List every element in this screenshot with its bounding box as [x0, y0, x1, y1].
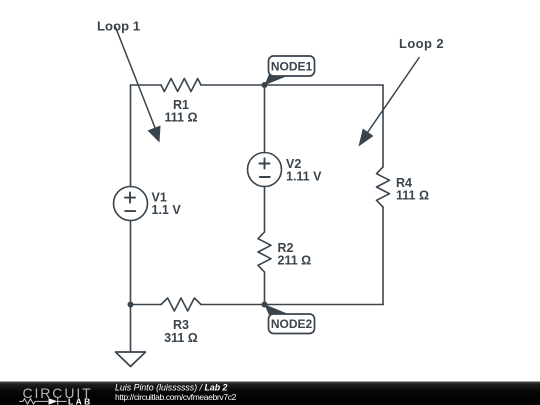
wire: left rail lower segment — [130, 221, 132, 305]
svg-text:111 Ω: 111 Ω — [396, 189, 429, 203]
annotation Loop 1 arrowhead — [148, 126, 161, 143]
annotation Loop 1 arrow line — [115, 25, 156, 130]
wire: middle rail from NODE1 to V2 — [264, 85, 266, 153]
resistor R2 — [258, 232, 271, 272]
node NODE2 callout wedge — [265, 304, 289, 314]
footer bar — [0, 382, 540, 405]
wire: top-left horizontal segment — [131, 84, 162, 86]
wire: middle rail from R2 to NODE2 — [264, 272, 266, 305]
svg-text:111 Ω: 111 Ω — [165, 111, 198, 125]
node NODE1 callout box — [269, 56, 315, 76]
svg-text:NODE1: NODE1 — [271, 60, 313, 74]
svg-text:1.11 V: 1.11 V — [286, 169, 322, 183]
wire: ground lead — [130, 305, 132, 353]
wire: bottom horizontal right segment — [201, 304, 383, 306]
annotation Loop 2 arrow line — [368, 57, 420, 133]
resistor R4 — [377, 167, 390, 207]
node junction dot at ground/left rail — [128, 302, 134, 308]
node junction dot NODE2 — [262, 302, 268, 308]
svg-text:LAB: LAB — [68, 397, 93, 405]
wire: middle rail from V2 to R2 — [264, 187, 266, 233]
resistor R3 — [161, 298, 201, 311]
node NODE2 callout box — [269, 314, 315, 334]
node NODE1 callout wedge — [265, 75, 289, 85]
wire: left rail upper segment — [130, 85, 132, 187]
wire: right rail lower segment — [382, 207, 384, 305]
svg-text:NODE2: NODE2 — [271, 317, 313, 331]
svg-text:http://circuitlab.com/cvfmeaeb: http://circuitlab.com/cvfmeaebrv7c2 — [115, 392, 237, 402]
svg-text:Loop 2: Loop 2 — [399, 36, 444, 51]
wire: right rail upper segment — [382, 85, 384, 167]
resistor R1 — [161, 79, 201, 92]
node junction dot NODE1 — [262, 82, 268, 88]
svg-text:1.1 V: 1.1 V — [152, 203, 182, 217]
svg-text:Luis Pinto (luissssss) / Lab 2: Luis Pinto (luissssss) / Lab 2 — [115, 382, 228, 392]
svg-text:Loop 1: Loop 1 — [97, 19, 140, 34]
svg-text:311 Ω: 311 Ω — [164, 331, 198, 345]
ground — [116, 352, 146, 367]
svg-text:211 Ω: 211 Ω — [278, 254, 312, 268]
footer CircuitLab logo circuit glyph (resistor + diode) — [19, 398, 66, 405]
wire: top horizontal from R1 to NODE1 and to top-right corner — [201, 84, 383, 86]
wire: bottom horizontal left segment — [131, 304, 162, 306]
annotation Loop 2 arrowhead — [359, 129, 374, 147]
voltage source V1 symbol — [114, 187, 148, 221]
voltage source V2 symbol — [248, 153, 282, 187]
svg-text:R3: R3 — [173, 318, 189, 332]
